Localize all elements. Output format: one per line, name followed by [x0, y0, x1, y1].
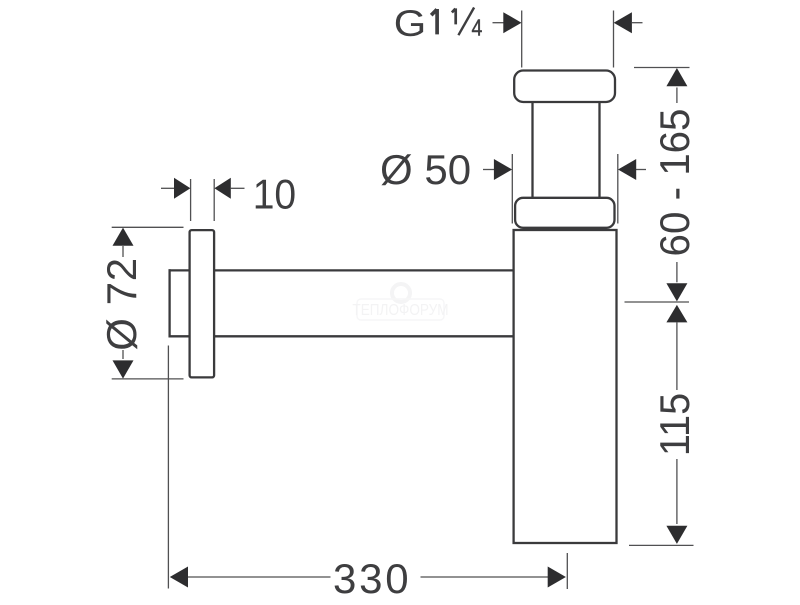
dimension Ø 72	[112, 227, 184, 379]
trap body	[514, 230, 617, 543]
svg-text:4: 4	[472, 15, 483, 41]
top flange	[514, 71, 615, 103]
dimension 10	[161, 179, 245, 221]
svg-text:60 - 165: 60 - 165	[651, 109, 698, 257]
wire vertical pipe outlet	[533, 101, 600, 199]
wire horizontal pipe	[169, 269, 515, 337]
dimension Ø 50	[483, 154, 646, 224]
lower flange	[515, 198, 614, 228]
svg-text:10: 10	[253, 170, 296, 218]
svg-text:330: 330	[333, 555, 411, 600]
watermark logo	[352, 284, 448, 320]
svg-text:ТЕПЛОФОРУМ: ТЕПЛОФОРУМ	[352, 302, 448, 319]
svg-text:Ø 72: Ø 72	[98, 257, 145, 350]
wall flange	[190, 230, 215, 377]
dimension G 1 1/4	[493, 11, 643, 68]
dimension 330	[168, 346, 567, 590]
dimension 60 - 165	[625, 68, 690, 303]
dimension 115	[629, 322, 694, 545]
svg-text:G: G	[394, 3, 427, 44]
svg-text:115: 115	[651, 393, 698, 456]
svg-text:Ø 50: Ø 50	[380, 146, 471, 193]
